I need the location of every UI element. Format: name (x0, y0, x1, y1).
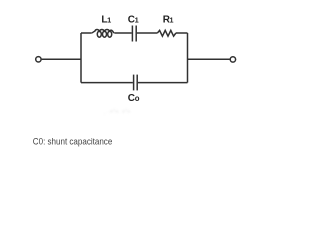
svg-text:Co: Co (128, 93, 140, 104)
svg-text:C1: C1 (128, 14, 139, 25)
svg-text:. ·•°•· •°•: . ·•°•· •°• (104, 108, 130, 116)
svg-text:R1: R1 (163, 14, 174, 25)
svg-text:L1: L1 (101, 14, 111, 25)
svg-text:C0: shunt capacitance: C0: shunt capacitance (33, 136, 113, 147)
